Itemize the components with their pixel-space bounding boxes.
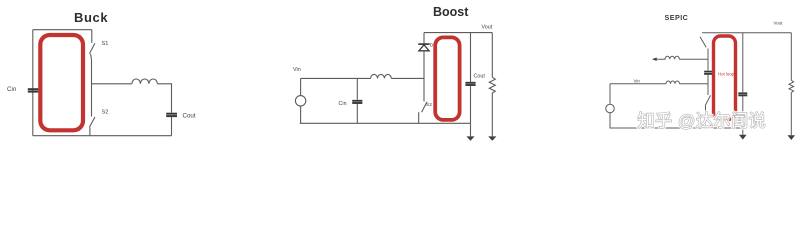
svg-text:Hot loop: Hot loop [718,71,735,76]
wire diode to switch node [423,51,425,102]
hot loop highlight sepic (red rounded rect) [714,36,736,119]
ground at Cout boost [470,123,472,136]
svg-text:Boost: Boost [433,5,469,19]
wire switch to bottom rail [418,112,420,123]
wire buck loop top edge [33,29,92,31]
inductor L buck [132,79,158,84]
wire buck right edge lower [89,127,91,135]
svg-text:Cin: Cin [339,101,347,107]
capacitor Cout boost [470,33,472,124]
wire sepic top rail [702,32,791,34]
wire buck loop left edge [32,30,34,136]
svg-text:S2: S2 [102,110,109,116]
switch S1 sepic (to ground, under watermark) [707,84,709,95]
wire Cout to bottom rail [171,117,173,136]
wire buck right edge middle [90,54,93,117]
switch S2 boost [422,102,427,112]
svg-text:Vout: Vout [482,24,493,30]
ground at load sepic [788,135,796,140]
wire boost input rail [301,77,371,79]
load resistor boost [489,33,495,137]
capacitor Cin [28,89,39,91]
svg-text:S2: S2 [426,102,432,108]
wire inductor to Cout [157,84,171,113]
wire boost left edge lower [300,106,302,123]
svg-text:Vin: Vin [293,67,301,73]
svg-text:SEPIC: SEPIC [665,13,689,22]
svg-text:Cin: Cin [7,86,17,93]
capacitor Cout sepic [742,33,744,135]
wire buck bottom rail [33,135,172,137]
load resistor sepic [789,33,794,135]
svg-text:Vout: Vout [774,21,784,26]
ground at Cout sepic [739,135,747,140]
capacitor Cin boost [356,78,358,123]
hot loop highlight buck (red rounded rect) [40,35,83,130]
switch S2 [89,117,95,127]
wire L2 to coupling cap node [679,58,708,60]
wire boost top rail [424,32,492,34]
svg-text:Cout: Cout [474,74,486,80]
diode D1 [418,43,429,45]
hot loop highlight boost (red rounded rect) [435,37,459,120]
inductor L1 sepic [666,81,680,84]
wire sepic left edge upper [609,84,611,105]
wire diode top [423,33,425,44]
wire buck right edge upper [91,30,93,43]
svg-text:Vin: Vin [634,79,641,84]
L2 branch arrow sepic [653,58,659,60]
wire coupling cap vertical lower [707,75,709,84]
svg-text:Buck: Buck [74,10,108,25]
source Vin circle boost [295,96,305,106]
svg-text:Cout: Cout [183,113,196,120]
wire boost left edge upper [300,78,302,95]
wire L1 to coupling node [680,83,709,85]
ground at load boost [488,136,496,140]
wire boost bottom rail [300,122,471,124]
svg-text:知乎 @达尔闻说: 知乎 @达尔闻说 [638,112,767,131]
wire sepic bottom rail [610,127,744,129]
wire sepic left edge lower [609,113,611,128]
inductor L2 sepic [658,56,679,59]
svg-text:S1: S1 [102,41,109,47]
wire inductor to diode node [391,77,424,79]
capacitor Cout buck [166,114,177,116]
wire sepic input rail [610,83,666,85]
switch S1 [89,43,95,54]
coupling capacitor sepic [704,72,712,74]
watermark 知乎 @达尔闻说 [638,112,767,131]
switch sepic top [700,37,706,47]
wire buck output node to inductor [92,83,132,85]
inductor L boost [371,74,392,78]
wire coupling cap vertical upper [707,49,709,71]
source Vin circle sepic [606,104,615,113]
